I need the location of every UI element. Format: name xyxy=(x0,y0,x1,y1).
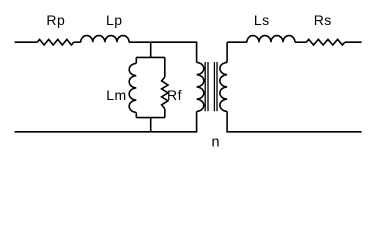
svg-text:Rp: Rp xyxy=(46,12,65,28)
svg-text:Rf: Rf xyxy=(167,87,182,103)
svg-text:Lm: Lm xyxy=(106,87,126,103)
svg-text:Ls: Ls xyxy=(254,12,270,28)
svg-text:Rs: Rs xyxy=(314,12,332,28)
svg-text:n: n xyxy=(212,134,221,150)
svg-text:Lp: Lp xyxy=(106,12,123,28)
